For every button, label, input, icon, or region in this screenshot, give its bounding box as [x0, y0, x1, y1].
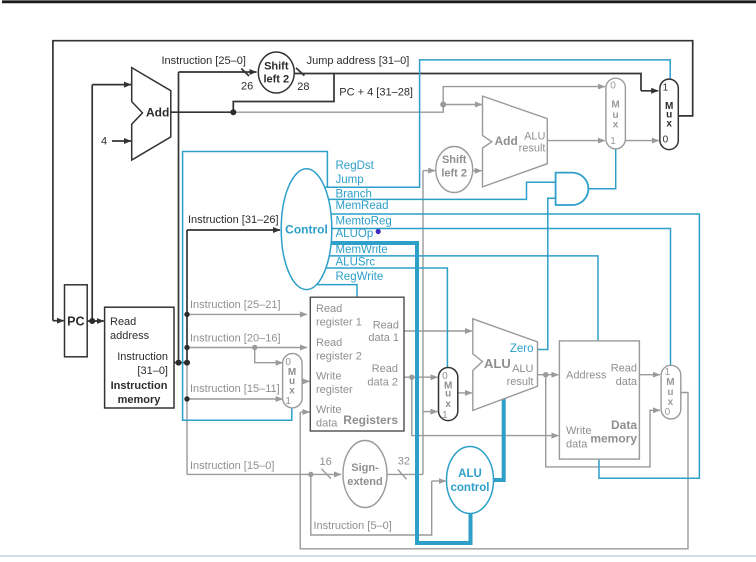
svg-text:Instruction [15–11]: Instruction [15–11]: [190, 383, 280, 395]
svg-text:u: u: [445, 388, 451, 399]
svg-text:Shift: Shift: [442, 154, 467, 166]
svg-text:address: address: [110, 330, 150, 342]
svg-text:Instruction [5–0]: Instruction [5–0]: [314, 520, 392, 532]
svg-text:[31–0]: [31–0]: [137, 365, 168, 377]
svg-text:1: 1: [610, 136, 616, 147]
svg-text:data: data: [316, 418, 338, 430]
svg-text:26: 26: [241, 81, 253, 93]
svg-text:ALU: ALU: [484, 356, 511, 371]
svg-text:extend: extend: [347, 476, 382, 488]
svg-text:Sign-: Sign-: [351, 462, 379, 474]
svg-text:Read: Read: [110, 316, 136, 328]
svg-text:RegDst: RegDst: [336, 160, 375, 172]
svg-text:Instruction: Instruction: [111, 380, 168, 392]
svg-text:Read: Read: [373, 320, 399, 332]
svg-text:ALU: ALU: [512, 363, 533, 375]
svg-text:result: result: [519, 143, 546, 155]
svg-text:Read: Read: [316, 303, 342, 315]
svg-text:28: 28: [297, 81, 309, 93]
svg-text:memory: memory: [590, 432, 637, 446]
svg-text:Data: Data: [611, 418, 637, 432]
svg-text:PC: PC: [67, 314, 84, 328]
svg-text:PC + 4 [31–28]: PC + 4 [31–28]: [339, 87, 413, 99]
svg-text:x: x: [613, 119, 619, 130]
svg-text:result: result: [507, 376, 534, 388]
svg-text:Read: Read: [611, 363, 637, 375]
svg-text:left 2: left 2: [441, 168, 467, 180]
svg-text:0: 0: [610, 80, 616, 91]
svg-text:x: x: [666, 119, 672, 130]
svg-text:Registers: Registers: [343, 413, 398, 427]
svg-text:0: 0: [663, 135, 669, 146]
svg-text:x: x: [289, 386, 295, 397]
svg-text:Instruction [31–26]: Instruction [31–26]: [188, 214, 279, 226]
svg-text:Branch: Branch: [336, 189, 372, 201]
svg-text:Write: Write: [316, 404, 341, 416]
svg-text:Zero: Zero: [510, 343, 534, 355]
svg-text:Add: Add: [146, 105, 169, 119]
svg-text:ALU: ALU: [524, 131, 545, 143]
svg-text:Read: Read: [372, 363, 398, 375]
svg-text:Jump: Jump: [336, 174, 364, 186]
svg-text:data 2: data 2: [367, 377, 398, 389]
svg-text:RegWrite: RegWrite: [336, 271, 384, 283]
svg-text:register 2: register 2: [316, 351, 362, 363]
svg-text:MemRead: MemRead: [336, 200, 389, 212]
svg-text:Write: Write: [566, 425, 591, 437]
svg-text:memory: memory: [118, 394, 162, 406]
svg-text:ALUOp: ALUOp: [336, 228, 374, 240]
svg-text:4: 4: [101, 136, 107, 148]
svg-text:register: register: [316, 384, 353, 396]
svg-text:register 1: register 1: [316, 317, 362, 329]
svg-text:left 2: left 2: [263, 73, 289, 85]
svg-text:ALU: ALU: [458, 468, 482, 480]
svg-text:16: 16: [320, 456, 332, 468]
svg-text:Address: Address: [566, 370, 607, 382]
svg-text:data 1: data 1: [368, 332, 399, 344]
svg-text:32: 32: [398, 456, 410, 468]
svg-text:Shift: Shift: [264, 60, 289, 72]
svg-text:data: data: [616, 376, 638, 388]
svg-text:1: 1: [663, 83, 669, 94]
svg-text:Control: Control: [285, 223, 328, 237]
svg-text:Instruction [25–0]: Instruction [25–0]: [162, 55, 246, 67]
svg-text:MemtoReg: MemtoReg: [336, 215, 392, 227]
svg-text:Add: Add: [495, 134, 518, 148]
svg-text:Write: Write: [316, 371, 341, 383]
svg-text:Instruction: Instruction: [117, 351, 168, 363]
svg-text:data: data: [566, 439, 588, 451]
svg-text:1: 1: [442, 410, 448, 421]
svg-text:control: control: [451, 482, 490, 494]
svg-text:MemWrite: MemWrite: [336, 244, 388, 256]
svg-text:Instruction [20–16]: Instruction [20–16]: [190, 333, 281, 345]
svg-text:0: 0: [665, 407, 671, 418]
svg-text:Jump address [31–0]: Jump address [31–0]: [307, 55, 410, 67]
svg-text:Instruction [15–0]: Instruction [15–0]: [190, 460, 274, 472]
svg-text:Instruction [25–21]: Instruction [25–21]: [190, 299, 281, 311]
svg-text:1: 1: [285, 396, 291, 407]
svg-text:x: x: [445, 399, 451, 410]
svg-text:ALUSrc: ALUSrc: [336, 256, 376, 268]
svg-text:Read: Read: [316, 337, 342, 349]
